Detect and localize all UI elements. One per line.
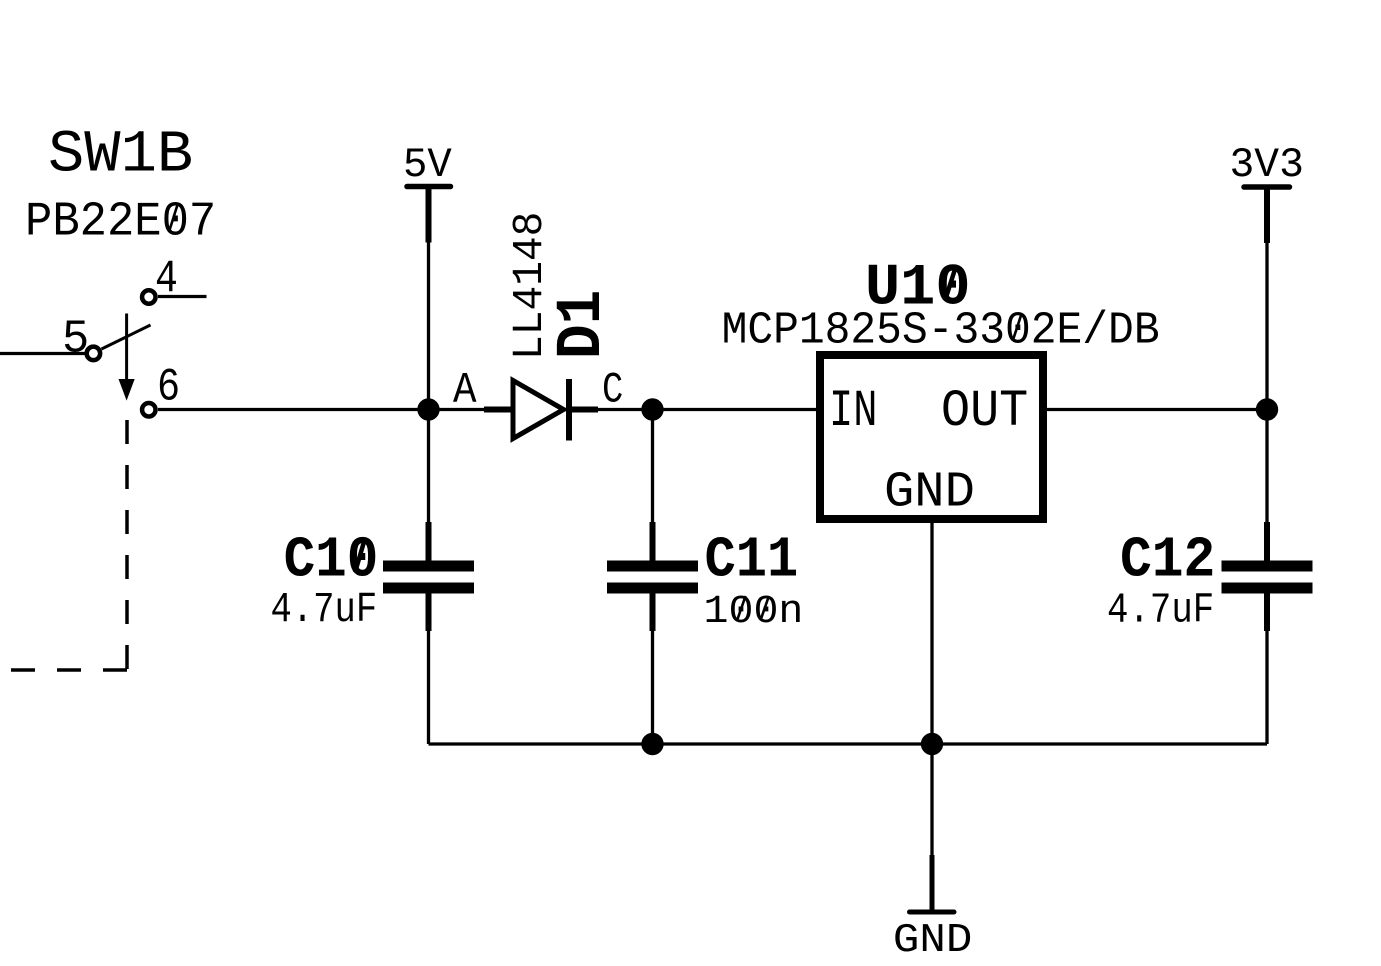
svg-text:C: C [602, 366, 623, 416]
svg-text:100n: 100n [704, 589, 804, 635]
svg-text:C12: C12 [1120, 529, 1215, 594]
svg-text:C11: C11 [705, 529, 799, 594]
svg-text:C10: C10 [284, 528, 379, 593]
svg-text:IN: IN [829, 382, 877, 441]
svg-text:3V3: 3V3 [1230, 141, 1304, 189]
svg-text:MCP1825S-3302E/DB: MCP1825S-3302E/DB [722, 305, 1160, 357]
svg-text:5: 5 [62, 314, 89, 367]
svg-text:GND: GND [893, 918, 972, 961]
svg-text:D1: D1 [547, 290, 619, 359]
svg-text:PB22E07: PB22E07 [25, 195, 216, 250]
svg-text:4.7uF: 4.7uF [1107, 587, 1214, 635]
svg-text:5V: 5V [403, 142, 452, 189]
svg-text:GND: GND [884, 465, 975, 522]
svg-text:SW1B: SW1B [48, 121, 193, 189]
svg-text:A: A [453, 366, 477, 416]
svg-text:6: 6 [157, 361, 180, 414]
svg-text:OUT: OUT [941, 382, 1028, 441]
svg-text:4.7uF: 4.7uF [271, 586, 378, 634]
svg-text:4: 4 [155, 252, 178, 305]
